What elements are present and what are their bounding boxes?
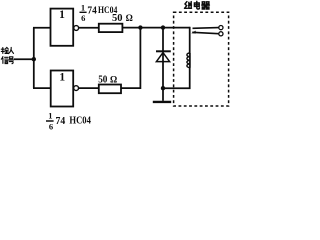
wire node B to diode <box>162 28 164 51</box>
node C (ground junction) <box>161 86 165 90</box>
wire input lead <box>14 58 34 60</box>
wire U1B output <box>79 87 99 89</box>
svg-text:HC04: HC04 <box>69 116 91 127</box>
信 <box>1 57 8 64</box>
inverter U1A output bubble <box>74 26 79 31</box>
ground <box>153 88 171 102</box>
svg-text:74: 74 <box>56 116 66 127</box>
label 50 Ω (R2) <box>98 75 117 86</box>
node input junction <box>32 57 36 61</box>
diode D1 (flyback) <box>156 51 171 61</box>
svg-text:1: 1 <box>81 3 85 13</box>
器 <box>202 2 210 9</box>
wire top rail to relay coil <box>122 27 189 29</box>
relay enclosure (dashed box) <box>174 12 229 106</box>
电 <box>194 1 199 9</box>
svg-text:74: 74 <box>87 6 96 17</box>
label 50 Ω (R1) <box>112 13 133 24</box>
node B (diode tap) <box>161 25 165 29</box>
svg-text:1: 1 <box>59 9 65 21</box>
svg-text:Ω: Ω <box>110 75 117 85</box>
svg-text:1: 1 <box>59 71 65 83</box>
resistor R2 <box>99 85 121 94</box>
label 1/6 74HC04 (bottom) <box>46 111 91 132</box>
号 <box>9 57 14 64</box>
svg-text:50: 50 <box>112 13 123 24</box>
svg-text:6: 6 <box>81 13 85 23</box>
wire input branch vertical <box>33 28 35 88</box>
svg-text:6: 6 <box>49 122 53 132</box>
label 继电器 (relay) <box>185 1 210 9</box>
wire to U1A input <box>33 27 50 29</box>
继 <box>185 2 192 9</box>
wire R2 output to node A <box>121 28 140 89</box>
resistor R1 <box>99 24 123 32</box>
wire coil top feed <box>189 27 191 53</box>
wire to U1B input <box>33 87 51 89</box>
输 <box>1 48 8 54</box>
label 1/6 74HC04 (top) <box>80 3 118 23</box>
inverter U1B output bubble <box>74 86 79 91</box>
node A (parallel outputs) <box>138 25 142 29</box>
relay contact (SPST) <box>191 26 223 36</box>
wire U1A output <box>79 27 99 29</box>
label 输入信号 (input signal) <box>1 47 13 63</box>
wire diode to node C <box>162 53 164 89</box>
svg-text:1: 1 <box>48 111 52 121</box>
relay coil L1 <box>187 53 190 68</box>
inverter U1A box <box>51 9 74 46</box>
wire node C to coil bottom <box>163 67 190 88</box>
svg-text:Ω: Ω <box>126 13 133 23</box>
入 <box>9 47 14 53</box>
inverter U1B box <box>51 71 73 107</box>
